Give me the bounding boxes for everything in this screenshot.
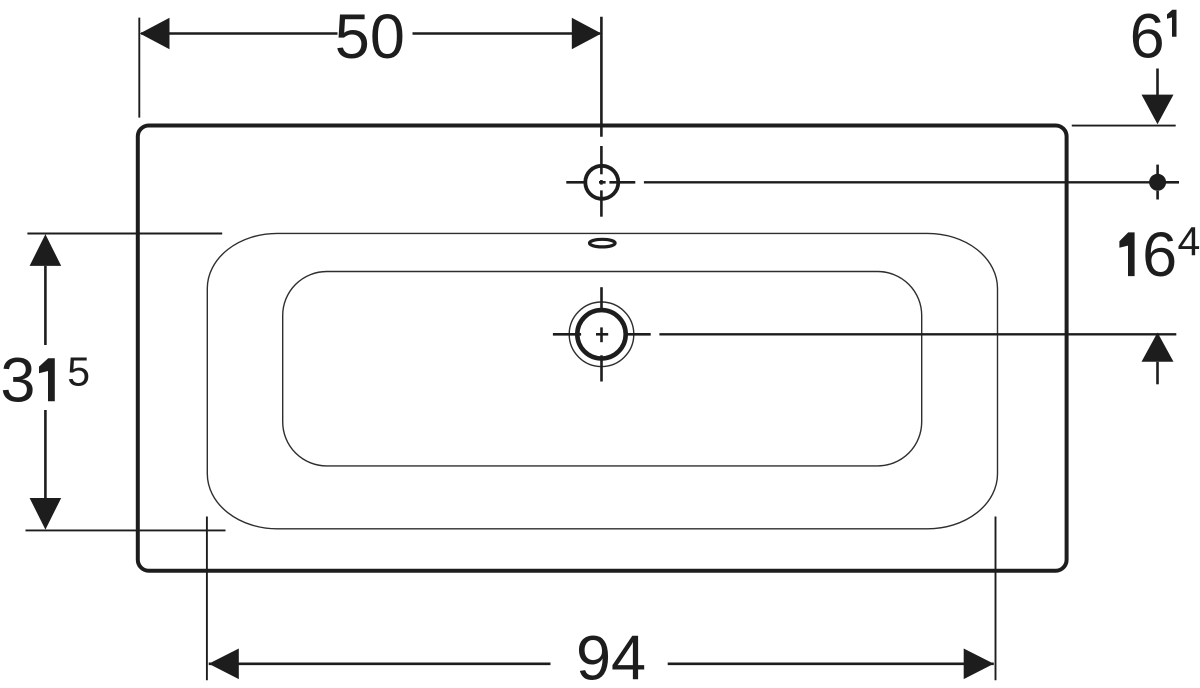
dimension 50: line bbox=[141, 32, 600, 35]
dimension 50: left extension line bbox=[138, 18, 140, 118]
dimension 94: right extension line bbox=[995, 517, 997, 681]
basin bottom outline bbox=[283, 272, 922, 466]
dimension 31.5: up arrowhead bbox=[30, 234, 62, 266]
dimension 16: up arrow bbox=[1142, 333, 1174, 362]
svg-text:6: 6 bbox=[1130, 2, 1165, 72]
drain centerline horizontal bbox=[553, 333, 651, 336]
dimension 94: right arrowhead bbox=[964, 649, 994, 680]
basin inner rim bbox=[207, 233, 997, 528]
drain level line to right arrow bbox=[659, 333, 1176, 335]
washbasin outer outline bbox=[138, 126, 1067, 571]
dimension 31.5: top extension line bbox=[27, 233, 222, 235]
svg-text:94: 94 bbox=[576, 624, 646, 688]
svg-text:6: 6 bbox=[1142, 220, 1177, 290]
dimension 50: left arrowhead bbox=[140, 18, 170, 50]
overflow slot bbox=[590, 239, 616, 247]
dimension 31.5: bottom extension line bbox=[26, 529, 226, 531]
drain centerline vertical bbox=[600, 287, 603, 381]
svg-text:4: 4 bbox=[1178, 218, 1200, 264]
dimension 31.5: line bbox=[44, 266, 47, 498]
tap hole centerline horizontal bbox=[566, 181, 635, 184]
dimension 6: down arrow bbox=[1156, 69, 1159, 96]
drain inner circle bbox=[577, 310, 625, 358]
dimension 94: left extension line bbox=[206, 517, 208, 681]
dimension 94: left arrowhead bbox=[209, 649, 239, 680]
dimension 16: label bbox=[1119, 232, 1134, 276]
svg-text:50: 50 bbox=[335, 2, 405, 72]
dimension 94: line bbox=[209, 662, 994, 665]
top edge extension line (right) bbox=[1072, 125, 1176, 127]
drain outer circle bbox=[569, 302, 634, 367]
dimension 50: right arrowhead bbox=[572, 18, 602, 50]
reference dot bbox=[1149, 165, 1179, 200]
tap level line to right reference dot bbox=[644, 181, 1176, 183]
svg-text:5: 5 bbox=[67, 349, 90, 395]
tap hole bbox=[585, 166, 618, 199]
tap hole centerline vertical bbox=[600, 17, 603, 217]
svg-text:3: 3 bbox=[0, 345, 35, 415]
dimension 31.5: down arrowhead bbox=[30, 498, 62, 530]
